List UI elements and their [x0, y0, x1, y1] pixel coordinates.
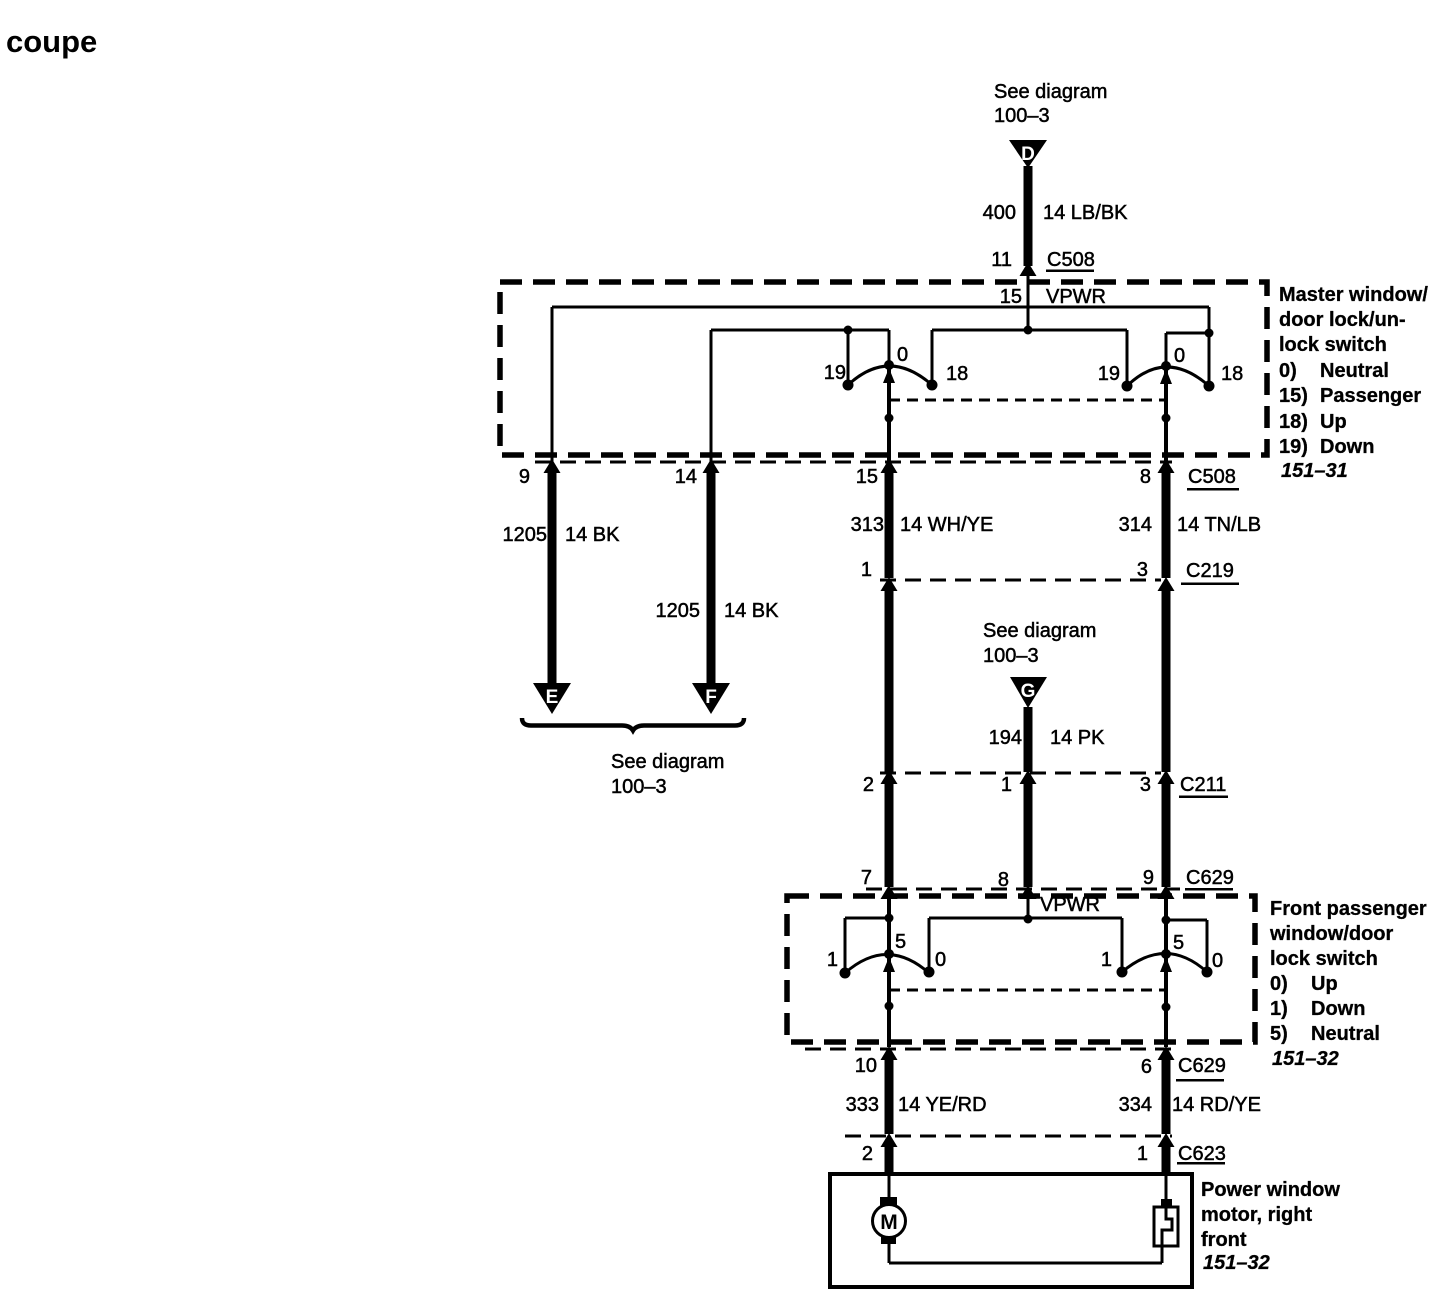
- svg-text:151–32: 151–32: [1272, 1048, 1339, 1070]
- svg-text:100–3: 100–3: [983, 645, 1039, 667]
- svg-text:front: front: [1201, 1229, 1247, 1251]
- svg-text:VPWR: VPWR: [1046, 286, 1106, 308]
- svg-text:lock switch: lock switch: [1270, 948, 1378, 970]
- svg-text:See diagram: See diagram: [983, 620, 1096, 642]
- svg-text:1): 1): [1270, 998, 1288, 1020]
- svg-text:14 TN/LB: 14 TN/LB: [1177, 514, 1261, 536]
- svg-text:15: 15: [1000, 286, 1022, 308]
- svg-text:10: 10: [855, 1055, 877, 1077]
- svg-text:0: 0: [1212, 950, 1223, 972]
- svg-text:Up: Up: [1311, 973, 1338, 995]
- svg-text:151–31: 151–31: [1281, 460, 1348, 482]
- svg-text:Passenger: Passenger: [1320, 385, 1421, 407]
- svg-text:1: 1: [1001, 774, 1012, 796]
- svg-text:14 PK: 14 PK: [1050, 727, 1105, 749]
- svg-text:0): 0): [1279, 360, 1297, 382]
- svg-text:14 WH/YE: 14 WH/YE: [900, 514, 993, 536]
- svg-text:2: 2: [862, 1143, 873, 1165]
- svg-text:15): 15): [1279, 385, 1308, 407]
- svg-text:See diagram: See diagram: [611, 751, 724, 773]
- svg-text:1: 1: [861, 559, 872, 581]
- svg-text:E: E: [546, 687, 559, 708]
- svg-text:5): 5): [1270, 1023, 1288, 1045]
- svg-text:9: 9: [519, 466, 530, 488]
- svg-text:19): 19): [1279, 436, 1308, 458]
- svg-text:Front passenger: Front passenger: [1270, 898, 1427, 920]
- svg-text:8: 8: [998, 869, 1009, 891]
- svg-text:3: 3: [1137, 559, 1148, 581]
- svg-text:14 BK: 14 BK: [724, 600, 779, 622]
- svg-text:14 YE/RD: 14 YE/RD: [898, 1094, 987, 1116]
- svg-text:14 RD/YE: 14 RD/YE: [1172, 1094, 1261, 1116]
- svg-text:C508: C508: [1047, 249, 1095, 271]
- svg-text:0: 0: [897, 344, 908, 366]
- svg-text:F: F: [705, 687, 717, 708]
- svg-text:door lock/un-: door lock/un-: [1279, 309, 1406, 331]
- svg-text:2: 2: [863, 774, 874, 796]
- svg-text:14 LB/BK: 14 LB/BK: [1043, 202, 1128, 224]
- svg-text:14: 14: [675, 466, 697, 488]
- svg-text:0: 0: [935, 949, 946, 971]
- svg-text:C629: C629: [1178, 1055, 1226, 1077]
- svg-text:Up: Up: [1320, 411, 1347, 433]
- svg-text:motor, right: motor, right: [1201, 1204, 1312, 1226]
- svg-text:Master window/: Master window/: [1279, 284, 1428, 306]
- svg-text:lock switch: lock switch: [1279, 334, 1387, 356]
- svg-text:Down: Down: [1311, 998, 1365, 1020]
- svg-text:C623: C623: [1178, 1143, 1226, 1165]
- svg-text:Neutral: Neutral: [1320, 360, 1389, 382]
- svg-text:5: 5: [1173, 932, 1184, 954]
- svg-text:6: 6: [1141, 1056, 1152, 1078]
- svg-text:19: 19: [824, 362, 846, 384]
- svg-text:Down: Down: [1320, 436, 1374, 458]
- svg-text:334: 334: [1119, 1094, 1152, 1116]
- svg-text:151–32: 151–32: [1203, 1252, 1270, 1274]
- svg-text:coupe: coupe: [6, 24, 97, 59]
- svg-text:See diagram: See diagram: [994, 81, 1107, 103]
- svg-text:11: 11: [991, 249, 1012, 271]
- svg-text:M: M: [880, 1211, 898, 1234]
- svg-text:314: 314: [1119, 514, 1152, 536]
- svg-text:9: 9: [1143, 867, 1154, 889]
- svg-text:100–3: 100–3: [611, 776, 667, 798]
- svg-text:8: 8: [1140, 466, 1151, 488]
- svg-text:100–3: 100–3: [994, 105, 1050, 127]
- svg-text:5: 5: [895, 931, 906, 953]
- svg-text:1: 1: [1101, 949, 1112, 971]
- svg-text:C211: C211: [1180, 774, 1226, 796]
- svg-text:400: 400: [983, 202, 1016, 224]
- svg-text:C219: C219: [1186, 560, 1234, 582]
- svg-text:0: 0: [1174, 345, 1185, 367]
- svg-text:333: 333: [846, 1094, 879, 1116]
- svg-text:19: 19: [1098, 363, 1120, 385]
- svg-text:1: 1: [1137, 1143, 1148, 1165]
- svg-text:18: 18: [1221, 363, 1243, 385]
- svg-text:window/door: window/door: [1269, 923, 1394, 945]
- svg-text:G: G: [1021, 681, 1036, 702]
- svg-text:1205: 1205: [656, 600, 701, 622]
- svg-text:15: 15: [856, 466, 878, 488]
- svg-text:C508: C508: [1188, 466, 1236, 488]
- svg-text:0): 0): [1270, 973, 1288, 995]
- svg-text:VPWR: VPWR: [1040, 894, 1100, 916]
- svg-text:313: 313: [851, 514, 884, 536]
- svg-text:7: 7: [861, 867, 872, 889]
- svg-text:194: 194: [989, 727, 1022, 749]
- svg-text:1: 1: [827, 949, 838, 971]
- svg-text:D: D: [1021, 144, 1035, 165]
- svg-text:1205: 1205: [503, 524, 548, 546]
- svg-text:18: 18: [946, 363, 968, 385]
- svg-text:3: 3: [1140, 774, 1151, 796]
- svg-text:14 BK: 14 BK: [565, 524, 620, 546]
- svg-text:Power window: Power window: [1201, 1179, 1340, 1201]
- svg-text:18): 18): [1279, 411, 1308, 433]
- svg-text:C629: C629: [1186, 867, 1234, 889]
- svg-text:Neutral: Neutral: [1311, 1023, 1380, 1045]
